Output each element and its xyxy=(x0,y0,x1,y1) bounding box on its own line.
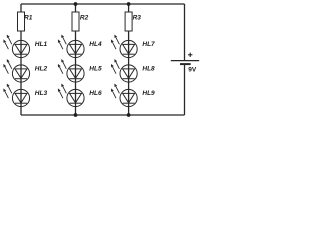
LED HL3 xyxy=(3,84,29,107)
LED HL2 xyxy=(3,59,29,82)
svg-text:R1: R1 xyxy=(24,15,33,22)
wire branch 2 top xyxy=(75,4,77,12)
svg-text:R2: R2 xyxy=(80,15,89,22)
svg-text:R3: R3 xyxy=(133,15,142,22)
resistor R1 xyxy=(18,12,25,31)
svg-text:HL1: HL1 xyxy=(35,41,48,48)
wire branch 1 top xyxy=(20,4,22,12)
resistor R3 xyxy=(125,12,132,31)
wire branch 3 xyxy=(128,31,130,115)
resistor R2 xyxy=(72,12,79,31)
LED HL6 xyxy=(58,84,84,107)
svg-text:HL6: HL6 xyxy=(89,90,102,97)
wire branch 1 xyxy=(20,31,22,115)
svg-text:HL4: HL4 xyxy=(89,41,102,48)
battery plus sign xyxy=(188,53,192,57)
wire branch 2 xyxy=(75,31,77,115)
junction top x=75.5 xyxy=(74,2,78,6)
junction bottom x=75.5 xyxy=(74,113,78,117)
wire top rail xyxy=(21,3,185,5)
battery GB1 positive plate xyxy=(171,60,199,62)
junction bottom x=128.6 xyxy=(127,113,131,117)
wire battery negative lead xyxy=(184,64,186,115)
wire bottom rail xyxy=(21,114,185,116)
LED HL7 xyxy=(111,35,137,58)
LED HL5 xyxy=(58,59,84,82)
svg-text:HL2: HL2 xyxy=(35,66,48,73)
LED HL9 xyxy=(111,84,137,107)
svg-text:HL5: HL5 xyxy=(89,66,102,73)
svg-text:HL3: HL3 xyxy=(35,90,48,97)
svg-text:HL8: HL8 xyxy=(142,66,155,73)
wire battery positive lead xyxy=(184,4,186,61)
battery GB1 negative plate xyxy=(180,63,191,65)
LED HL8 xyxy=(111,59,137,82)
junction top x=128.6 xyxy=(127,2,131,6)
svg-text:9V: 9V xyxy=(188,66,197,73)
svg-text:HL9: HL9 xyxy=(142,90,155,97)
svg-text:HL7: HL7 xyxy=(142,41,155,48)
LED HL1 xyxy=(3,35,29,58)
wire branch 3 top xyxy=(128,4,130,12)
LED HL4 xyxy=(58,35,84,58)
